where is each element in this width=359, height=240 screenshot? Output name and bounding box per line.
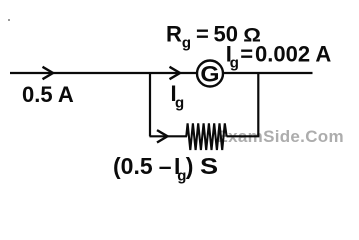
svg-text:0.5 A: 0.5 A: [22, 82, 74, 107]
svg-text:(0.5–Ig): (0.5–Ig): [113, 153, 193, 185]
svg-text:S: S: [200, 154, 218, 180]
svg-text:G: G: [200, 62, 219, 86]
svg-text:Ig=0.002 A: Ig=0.002 A: [226, 41, 332, 71]
svg-text:Ig: Ig: [171, 81, 185, 112]
